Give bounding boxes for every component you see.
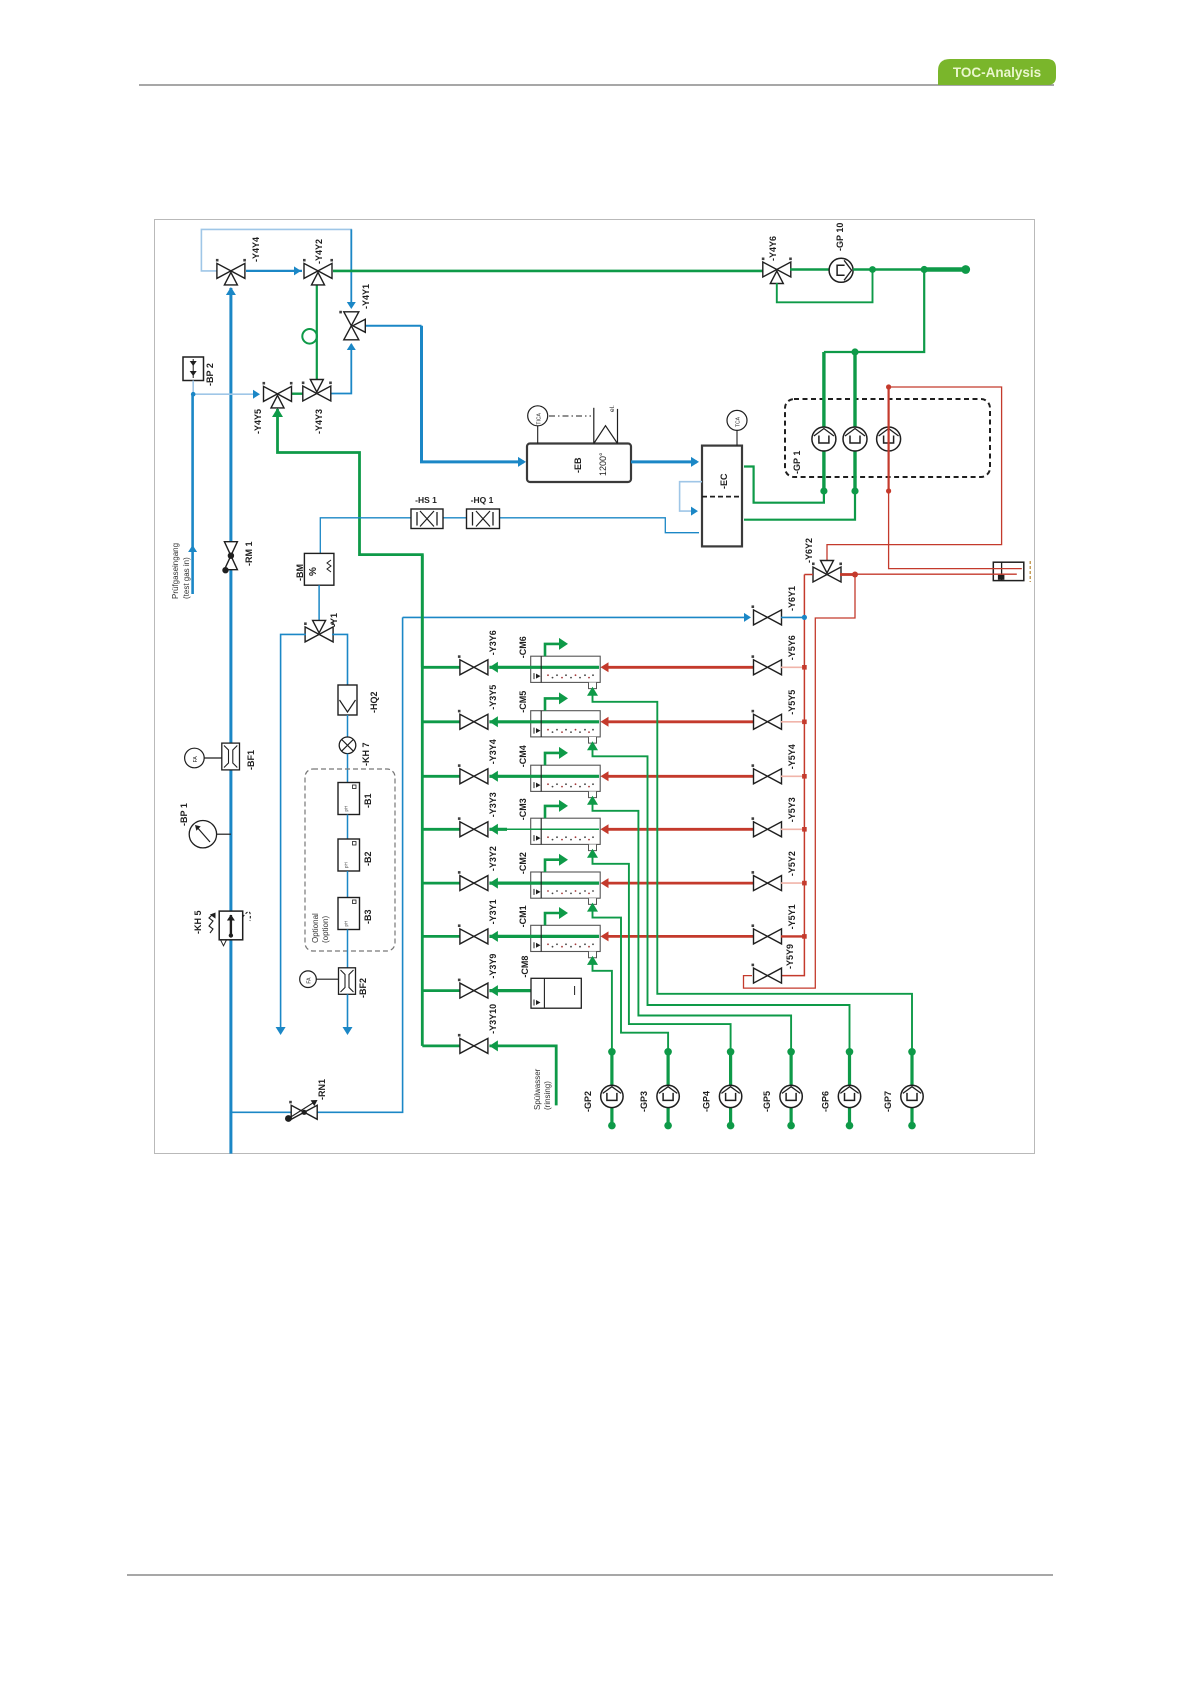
red manifold bbox=[781, 575, 804, 976]
svg-text:-CM3: -CM3 bbox=[518, 798, 528, 820]
wire Y4Y4 to Y4Y2 bbox=[246, 270, 302, 272]
svg-text:-GP 1: -GP 1 bbox=[792, 451, 802, 474]
svg-text:-Y4Y2: -Y4Y2 bbox=[314, 239, 324, 264]
valve -Y4Y4 bbox=[216, 259, 246, 285]
svg-text:-Y3Y6: -Y3Y6 bbox=[488, 630, 498, 655]
wire Y6Y2 right stub bbox=[840, 573, 855, 576]
wire B1-B2 bbox=[347, 815, 349, 840]
component -HQ1 bbox=[467, 509, 500, 529]
valve -Y4Y3 bbox=[302, 380, 332, 402]
node BP2 branch bbox=[191, 392, 196, 397]
svg-text:-KH 5: -KH 5 bbox=[193, 910, 203, 934]
drain notch -CM5 bbox=[589, 737, 597, 743]
svg-text:-BF1: -BF1 bbox=[246, 750, 256, 770]
svg-text:(rinsing): (rinsing) bbox=[543, 1081, 552, 1110]
wire red loop to Y6Y2 bbox=[827, 387, 1002, 561]
instrument TICA bbox=[528, 406, 548, 426]
component -BF2 flow restrictor bbox=[339, 968, 356, 995]
wire Y1 left vent bbox=[281, 634, 306, 1031]
svg-text:Spülwasser: Spülwasser bbox=[533, 1068, 542, 1110]
svg-text:-CM5: -CM5 bbox=[518, 691, 528, 713]
green left manifold bbox=[421, 555, 424, 1046]
svg-text:-GP5: -GP5 bbox=[762, 1091, 772, 1112]
instrument FA of BF1 bbox=[185, 748, 205, 768]
wire manifold to -Y3Y5 bbox=[422, 720, 461, 723]
svg-text:FA: FA bbox=[193, 756, 199, 763]
arrow into Y4Y5 bottom bbox=[272, 408, 283, 417]
svg-text:-Y3Y9: -Y3Y9 bbox=[488, 954, 498, 979]
valve -Y4Y1 bbox=[339, 311, 365, 340]
vent arrow -CM5 bbox=[545, 698, 560, 710]
arrow into EB left bbox=[518, 457, 526, 467]
drain notch -CM3 bbox=[589, 844, 597, 850]
arrow into Y4Y4 bottom bbox=[226, 287, 236, 295]
svg-text:-Y6Y2: -Y6Y2 bbox=[804, 538, 814, 563]
arrow red into -CM4 bbox=[601, 771, 609, 781]
node manifold -Y5Y5 bbox=[802, 720, 807, 725]
pump -GP1b bbox=[843, 427, 867, 451]
wire vessel -CM5 to valve bbox=[489, 720, 599, 723]
arrow into -Y3Y4 bbox=[489, 771, 498, 782]
svg-text:-Y5Y2: -Y5Y2 bbox=[787, 851, 797, 876]
wire pump2 column thick bbox=[853, 352, 856, 491]
optional dashed box bbox=[305, 769, 395, 951]
wire rinse water bbox=[489, 1046, 556, 1106]
instrument FA of BF2 bbox=[300, 971, 317, 988]
dashed box -GP1 bbox=[785, 399, 990, 477]
wire B2-B3 bbox=[347, 871, 349, 898]
wire manifold to -Y3Y6 bbox=[422, 666, 461, 669]
wire pump1 column bbox=[744, 352, 824, 503]
svg-text:-GP7: -GP7 bbox=[883, 1091, 893, 1112]
valve -Y5Y1 bbox=[752, 924, 782, 944]
wire pump3 red column bbox=[887, 387, 889, 491]
wire manifold to -Y3Y1 bbox=[422, 935, 461, 938]
wire -Y5Y6 to manifold bbox=[781, 666, 804, 668]
arrow red into -CM2 bbox=[601, 878, 609, 888]
svg-text:-RM 1: -RM 1 bbox=[244, 542, 254, 567]
wire red return loop bbox=[744, 575, 856, 989]
wire -GP5 column bbox=[789, 1052, 792, 1126]
EC divider bbox=[702, 496, 742, 498]
vent arrow -CM4 bbox=[545, 753, 560, 765]
node bypass join bbox=[869, 266, 876, 273]
node -GP2 bottom bbox=[608, 1122, 616, 1130]
wire green from Y4Y5 bottom elbow bbox=[278, 409, 423, 667]
arrow vent down right bbox=[343, 1027, 353, 1035]
wire Y4Y1 right then down to EB bbox=[365, 325, 422, 327]
component -BP2 flame arrestor bbox=[183, 357, 204, 381]
wire -Y5Y4 to manifold bbox=[781, 775, 804, 777]
svg-text:-Y6Y1: -Y6Y1 bbox=[787, 586, 797, 611]
wire vessel -CM6 to valve bbox=[489, 666, 599, 669]
svg-text:-Y4Y6: -Y4Y6 bbox=[768, 236, 778, 261]
wire -GP2 column bbox=[610, 1052, 613, 1126]
wire red feed -CM2 bbox=[604, 882, 754, 885]
diagram frame bbox=[155, 220, 1035, 1154]
wire Y6Y2 left to manifold bbox=[804, 574, 813, 576]
drain notch -CM6 bbox=[589, 682, 597, 688]
svg-text:-Y4Y1: -Y4Y1 bbox=[361, 284, 371, 309]
valve -Y6Y2 bbox=[812, 561, 842, 583]
svg-text:-EC: -EC bbox=[719, 473, 729, 489]
vent arrow -CM2 bbox=[545, 860, 560, 872]
vessel -CM8 bbox=[531, 978, 581, 1008]
node -GP2 top bbox=[608, 1048, 616, 1056]
drain arrow -CM4 bbox=[587, 796, 598, 805]
node outlet junction bbox=[921, 266, 928, 273]
wire HQ2 to KH7 bbox=[347, 715, 349, 737]
wire Y4Y5 to Y4Y3 bbox=[290, 393, 305, 395]
component -EB furnace bbox=[527, 444, 631, 483]
wire riser CM2 to GP3 bbox=[593, 905, 669, 1052]
node manifold -Y5Y2 bbox=[802, 881, 807, 886]
node -GP5 top bbox=[787, 1048, 795, 1056]
node outlet end bbox=[961, 265, 970, 274]
svg-text:(option): (option) bbox=[321, 916, 330, 943]
node -GP7 top bbox=[908, 1048, 916, 1056]
pump -GP3 bbox=[657, 1085, 679, 1107]
svg-text:%: % bbox=[308, 567, 319, 576]
valve -Y5Y9 bbox=[752, 964, 782, 984]
wire manifold to -Y3Y9 bbox=[422, 989, 461, 992]
svg-text:-EB: -EB bbox=[573, 457, 583, 473]
vent arrow -CM3 bbox=[545, 806, 560, 818]
pump -GP5 bbox=[780, 1085, 802, 1107]
wire -GP3 column bbox=[666, 1052, 669, 1126]
node -GP4 top bbox=[727, 1048, 735, 1056]
svg-text:el.: el. bbox=[609, 405, 616, 412]
component -B2 sensor bbox=[338, 839, 360, 871]
svg-text:pH: pH bbox=[344, 806, 349, 812]
drain arrow -CM6 bbox=[587, 687, 598, 696]
svg-text:-CM6: -CM6 bbox=[518, 636, 528, 658]
node -GP3 bottom bbox=[664, 1122, 672, 1130]
node -GP5 bottom bbox=[787, 1122, 795, 1130]
svg-text:Prüfgaseingang: Prüfgaseingang bbox=[171, 543, 180, 599]
valve -Y4Y6 bbox=[762, 258, 792, 284]
wire B3 to BF2 bbox=[347, 930, 349, 968]
arrow into -Y3Y5 bbox=[489, 716, 498, 727]
svg-text:FA: FA bbox=[307, 977, 313, 984]
svg-text:-CM4: -CM4 bbox=[518, 745, 528, 767]
svg-text:-Y5Y4: -Y5Y4 bbox=[787, 744, 797, 769]
svg-text:-BP 1: -BP 1 bbox=[179, 803, 189, 826]
wire riser CM4 to GP5 bbox=[593, 798, 792, 1052]
svg-text:-HQ2: -HQ2 bbox=[369, 691, 379, 713]
pump -GP10 bbox=[829, 258, 853, 282]
wire -Y5Y5 to manifold bbox=[781, 721, 804, 723]
component -HS1 bbox=[411, 509, 443, 529]
wire -Y5Y1 to manifold bbox=[781, 935, 804, 937]
node manifold -Y5Y6 bbox=[802, 665, 807, 670]
wire riser CM3 to GP4 bbox=[593, 851, 731, 1052]
svg-text:-GP6: -GP6 bbox=[821, 1091, 831, 1112]
svg-text:-Y1: -Y1 bbox=[329, 613, 339, 627]
wire TCA stem bbox=[736, 430, 738, 445]
wire -GP4 column bbox=[729, 1052, 732, 1126]
svg-text:TOC-Analysis: TOC-Analysis bbox=[953, 65, 1041, 80]
wire FA to BF2 bbox=[316, 978, 338, 980]
vessel -CM5 internals bbox=[540, 711, 542, 737]
wire FA to BF1 bbox=[204, 757, 222, 759]
header rule bbox=[139, 84, 1054, 86]
wire red feed -CM3 bbox=[604, 828, 754, 831]
wire -Y5Y2 to manifold bbox=[781, 882, 804, 884]
wire vessel -CM4 to valve bbox=[489, 775, 599, 778]
svg-text:-Y3Y5: -Y3Y5 bbox=[488, 685, 498, 710]
arrow red into -CM3 bbox=[601, 824, 609, 834]
wire Y4Y3 right to Y4Y1 bottom bbox=[331, 344, 351, 394]
wire pump1 column thick bbox=[822, 352, 825, 491]
valve -Y5Y2 bbox=[752, 871, 782, 891]
wire pump2 column bbox=[744, 352, 855, 520]
pump -GP2 bbox=[601, 1085, 623, 1107]
node -GP6 top bbox=[846, 1048, 854, 1056]
node manifold -Y5Y4 bbox=[802, 774, 807, 779]
svg-text:TICA: TICA bbox=[536, 413, 542, 425]
wire TICA stem bbox=[537, 426, 539, 444]
pump -GP1a bbox=[812, 427, 836, 451]
svg-text:-Y5Y9: -Y5Y9 bbox=[785, 944, 795, 969]
vessel -CM5 bbox=[531, 711, 601, 737]
wire red pump3 to sampler bbox=[889, 491, 1022, 569]
svg-text:-HS 1: -HS 1 bbox=[415, 495, 437, 505]
valve -Y3Y1 bbox=[458, 924, 488, 944]
vessel -CM4 internals bbox=[540, 765, 542, 791]
drain arrow -CM1 bbox=[587, 956, 598, 965]
valve -Y3Y10 bbox=[458, 1034, 488, 1054]
wire BF2 down vent bbox=[347, 994, 349, 1031]
component -KH7 shutoff bbox=[339, 737, 356, 754]
svg-text:-Y5Y1: -Y5Y1 bbox=[787, 904, 797, 929]
svg-text:-Y3Y10: -Y3Y10 bbox=[488, 1004, 498, 1034]
vessel -CM6 internals bbox=[540, 656, 542, 682]
pump -GP7 bbox=[901, 1085, 923, 1107]
wire EC condensate loop bbox=[680, 482, 702, 511]
svg-text:-B1: -B1 bbox=[363, 793, 373, 808]
drain arrow -CM5 bbox=[587, 741, 598, 750]
vessel -CM2 internals bbox=[540, 872, 542, 898]
arrow into -Y3Y9 bbox=[489, 985, 498, 996]
wire BP2 to Y4Y5 pale bbox=[193, 381, 258, 395]
wire manifold to -Y3Y4 bbox=[422, 775, 461, 778]
valve -Y3Y4 bbox=[458, 764, 488, 784]
arrow red into -CM6 bbox=[601, 662, 609, 672]
pump -GP6 bbox=[838, 1085, 860, 1107]
valve -Y3Y2 bbox=[458, 871, 488, 891]
wire RN1 branch bbox=[231, 617, 403, 1112]
wire red feed -CM5 bbox=[604, 720, 754, 723]
valve -Y3Y9 bbox=[458, 979, 488, 999]
arrow into -Y3Y6 bbox=[489, 662, 498, 673]
svg-text:-Y4Y4: -Y4Y4 bbox=[251, 237, 261, 262]
arrow EC loop in bbox=[691, 507, 698, 516]
wire -GP7 column bbox=[910, 1052, 913, 1126]
component -HQ2 bbox=[338, 685, 357, 715]
arrow red into -CM5 bbox=[601, 717, 609, 727]
wire to Y6Y1 bbox=[403, 616, 748, 618]
node header junction bbox=[851, 348, 858, 355]
valve -Y5Y5 bbox=[752, 710, 782, 730]
valve -RM1 bbox=[224, 542, 237, 570]
wire Y4Y6 to GP10 bbox=[790, 268, 829, 270]
instrument -BP1 pressure gauge bbox=[189, 821, 216, 848]
node Y6Y2 out bbox=[852, 572, 858, 578]
heater element bbox=[593, 408, 595, 444]
wire EB to EC bbox=[631, 460, 697, 463]
valve -Y1 bbox=[304, 620, 334, 642]
valve -Y4Y2 bbox=[303, 259, 333, 285]
node pump1 bottom bbox=[820, 487, 827, 494]
wire main gas riser to Y4Y4 bbox=[229, 288, 232, 1154]
svg-text:TCA: TCA bbox=[736, 416, 742, 427]
arrow red into -CM1 bbox=[601, 931, 609, 941]
wire TICA dashdot bbox=[549, 415, 591, 417]
svg-text:-BM: -BM bbox=[295, 564, 305, 581]
svg-text:-BF2: -BF2 bbox=[358, 978, 368, 998]
wire KH7 into optional box bbox=[347, 754, 349, 783]
wire red to sampler lower bbox=[855, 573, 1017, 575]
wire manifold to -Y3Y3 bbox=[422, 828, 461, 831]
valve -Y3Y6 bbox=[458, 655, 488, 675]
wire green Y4Y2 down to Y4Y3 bbox=[316, 284, 318, 381]
svg-text:-Y4Y3: -Y4Y3 bbox=[314, 409, 324, 434]
drain arrow -CM2 bbox=[587, 903, 598, 912]
wire test gas inlet bbox=[191, 394, 194, 594]
arrow test gas up bbox=[188, 545, 197, 552]
node pump2 bottom bbox=[851, 487, 858, 494]
sampler cylinder bbox=[993, 562, 1024, 580]
svg-text:-B3: -B3 bbox=[363, 909, 373, 924]
svg-text:-Y3Y1: -Y3Y1 bbox=[488, 899, 498, 924]
svg-text:Optional: Optional bbox=[311, 913, 320, 943]
wire outlet stub bbox=[924, 267, 966, 271]
wire red feed -CM6 bbox=[604, 666, 754, 669]
arrow into Y4Y1 bottom bbox=[347, 343, 356, 350]
svg-text:pH: pH bbox=[344, 862, 349, 868]
svg-text:-GP 10: -GP 10 bbox=[835, 223, 845, 251]
node manifold -Y5Y1 bbox=[802, 934, 807, 939]
svg-text:-GP3: -GP3 bbox=[639, 1091, 649, 1112]
wire pale drop into Y4Y1 bbox=[350, 229, 352, 305]
drain arrow -CM3 bbox=[587, 849, 598, 858]
component -BF1 flow restrictor bbox=[222, 743, 240, 770]
vessel -CM1 bbox=[531, 925, 601, 951]
svg-text:1200°: 1200° bbox=[598, 452, 608, 476]
vessel -CM1 internals bbox=[540, 925, 542, 951]
vessel -CM2 bbox=[531, 872, 601, 898]
wire -GP6 column bbox=[848, 1052, 851, 1126]
arrow into Y4Y5 left bbox=[253, 390, 260, 399]
vessel -CM4 bbox=[531, 765, 601, 791]
svg-text:-Y3Y2: -Y3Y2 bbox=[488, 846, 498, 871]
component -BM analyzer bbox=[304, 553, 334, 585]
vent arrow -CM1 bbox=[545, 913, 560, 925]
instrument TCA bbox=[727, 410, 747, 430]
valve -Y6Y1 bbox=[752, 605, 782, 625]
svg-text:-Y3Y4: -Y3Y4 bbox=[488, 739, 498, 764]
node -GP3 top bbox=[664, 1048, 672, 1056]
arrow into -Y3Y2 bbox=[489, 878, 498, 889]
node Y6Y1 manifold bbox=[802, 615, 807, 620]
component -B1 sensor bbox=[338, 783, 360, 815]
svg-text:-GP2: -GP2 bbox=[583, 1091, 593, 1112]
pump -GP1c bbox=[877, 427, 901, 451]
arrow into -Y3Y3 bbox=[489, 824, 498, 835]
node manifold -Y5Y3 bbox=[802, 827, 807, 832]
drain notch -CM1 bbox=[589, 952, 597, 958]
component -B3 sensor bbox=[338, 898, 360, 930]
component -EC cooler bbox=[702, 446, 742, 547]
svg-text:-GP4: -GP4 bbox=[702, 1091, 712, 1112]
wire riser CM5 to GP6 bbox=[593, 744, 850, 1052]
node pump3 top bbox=[886, 384, 891, 389]
svg-text:-B2: -B2 bbox=[363, 851, 373, 866]
TOC-Analysis badge bbox=[938, 59, 1056, 85]
footer rule bbox=[127, 1574, 1053, 1576]
drain notch -CM2 bbox=[589, 898, 597, 904]
node -GP4 bottom bbox=[727, 1122, 735, 1130]
wire manifold to -Y3Y10 bbox=[422, 1045, 461, 1048]
arrow into EC left bbox=[691, 457, 699, 467]
pump -GP4 bbox=[719, 1085, 741, 1107]
wire GP10 out bbox=[853, 268, 924, 271]
svg-text:-RN1: -RN1 bbox=[317, 1079, 327, 1100]
wire CM8 to valve bbox=[489, 989, 574, 992]
arrow into -Y3Y10 bbox=[489, 1040, 498, 1051]
arrow into Y4Y2 left bbox=[294, 266, 301, 275]
wire Y4Y6 bypass bbox=[777, 270, 873, 303]
wire BM to Y1 bbox=[318, 585, 320, 622]
svg-text:-Y5Y5: -Y5Y5 bbox=[787, 690, 797, 715]
component -KH5 hand valve bbox=[219, 911, 243, 940]
valve -Y3Y5 bbox=[458, 710, 488, 730]
wire -Y5Y3 to manifold bbox=[781, 828, 804, 830]
svg-text:-Y4Y5: -Y4Y5 bbox=[253, 409, 263, 434]
svg-text:-CM1: -CM1 bbox=[518, 905, 528, 927]
coil loop in green line bbox=[302, 329, 317, 344]
valve -Y3Y3 bbox=[458, 817, 488, 837]
svg-text:-CM8: -CM8 bbox=[520, 956, 530, 978]
wire pale recirc rect Y4Y4 to Y4Y1 bbox=[201, 229, 351, 271]
wire riser CM6 to GP7 bbox=[593, 689, 913, 1052]
svg-text:-Y3Y3: -Y3Y3 bbox=[488, 792, 498, 817]
vent arrow -CM6 bbox=[545, 644, 560, 656]
wire red feed -CM4 bbox=[604, 775, 754, 778]
arrow into Y4Y1 top bbox=[347, 302, 356, 309]
svg-text:pH: pH bbox=[344, 921, 349, 927]
svg-text:-BP 2: -BP 2 bbox=[205, 363, 215, 386]
wire green main out Y4Y2 to Y4Y6 bbox=[333, 270, 763, 273]
vessel -CM6 bbox=[531, 656, 601, 682]
valve -Y4Y5 bbox=[263, 382, 293, 408]
svg-text:-KH 7: -KH 7 bbox=[361, 742, 371, 766]
arrow vent down left bbox=[276, 1027, 286, 1035]
wire vessel -CM3 to valve bbox=[489, 828, 507, 831]
wire Y6Y1 out bbox=[781, 616, 804, 618]
drain notch -CM4 bbox=[589, 791, 597, 797]
arrow into -Y3Y1 bbox=[489, 931, 498, 942]
vessel -CM3 internals bbox=[540, 818, 542, 844]
valve -Y5Y6 bbox=[752, 655, 782, 675]
wire Y1 right to HQ2 bbox=[332, 634, 348, 685]
wire manifold to -Y3Y2 bbox=[422, 882, 461, 885]
vessel -CM3 bbox=[531, 818, 601, 844]
valve -Y5Y3 bbox=[752, 817, 782, 837]
wire red feed -CM1 bbox=[604, 935, 754, 938]
valve -Y5Y4 bbox=[752, 764, 782, 784]
